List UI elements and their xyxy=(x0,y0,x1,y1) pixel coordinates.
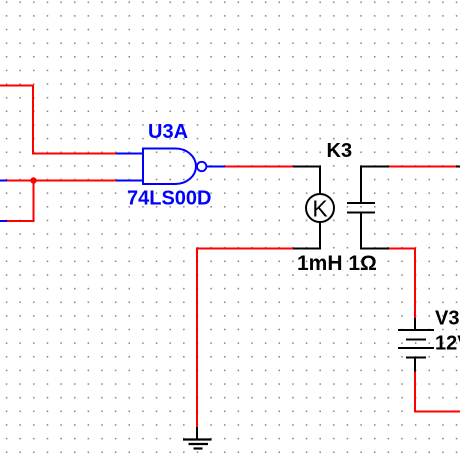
wire xyxy=(225,166,293,168)
wire xyxy=(415,372,460,412)
node junction xyxy=(30,177,36,183)
wire xyxy=(389,166,456,168)
battery V3 plate 3 xyxy=(398,347,434,349)
svg-text:74LS00D: 74LS00D xyxy=(127,188,212,210)
svg-text:V3: V3 xyxy=(435,308,459,330)
relay K3 contact plate top xyxy=(347,202,375,204)
pin stub left A xyxy=(0,180,7,182)
pin 3 output xyxy=(207,166,226,168)
op-amp U1 pin 1 xyxy=(116,153,143,155)
svg-text:12V: 12V xyxy=(435,333,460,355)
svg-text:1mH 1Ω: 1mH 1Ω xyxy=(297,252,377,275)
battery V3 bottom lead xyxy=(414,358,416,372)
wire xyxy=(197,249,293,428)
battery V3 plate 4 xyxy=(406,357,426,359)
ground lead xyxy=(196,427,198,439)
nand gate U3A bubble xyxy=(197,162,206,171)
nand gate U3A body xyxy=(143,149,196,185)
pin stub left B xyxy=(0,220,7,222)
battery V3 plate 1 xyxy=(398,329,434,331)
battery V3 top lead xyxy=(414,318,416,330)
wire xyxy=(7,181,34,222)
relay K3 coil bottom lead xyxy=(293,222,320,249)
pin stub right edge xyxy=(456,166,460,168)
relay K3 coil top lead xyxy=(293,167,320,196)
wire xyxy=(389,249,415,319)
svg-text:K: K xyxy=(312,196,328,222)
pin 2 xyxy=(116,180,143,182)
ground bar 3 xyxy=(194,447,203,449)
wire xyxy=(7,180,116,182)
relay K3 coil circle xyxy=(306,194,334,222)
ground bar 1 xyxy=(183,438,212,440)
relay K3 contact top lead xyxy=(361,167,389,203)
svg-text:K3: K3 xyxy=(327,140,353,162)
svg-text:U3A: U3A xyxy=(148,121,188,143)
ground bar 2 xyxy=(189,443,209,445)
wire xyxy=(0,86,116,154)
battery V3 plate 2 xyxy=(406,339,426,341)
relay K3 contact plate bottom xyxy=(347,212,375,214)
relay K3 contact bottom lead xyxy=(361,214,389,249)
